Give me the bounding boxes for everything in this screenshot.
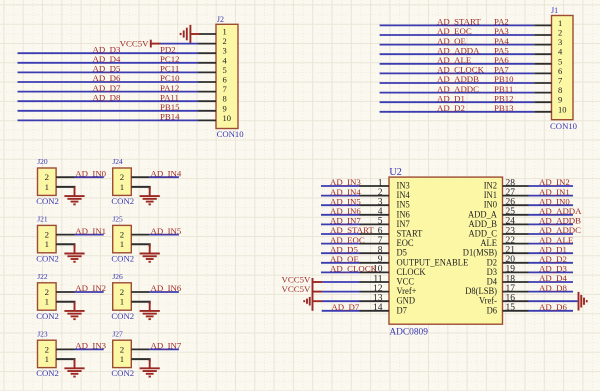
pin stub U2 pin 6 [360,233,390,235]
svg-text:AD_CLOCK: AD_CLOCK [437,65,485,75]
wire AD_EOC (J1 pin 2) [380,34,535,36]
svg-text:D7: D7 [397,306,408,316]
ground at J21 pin 1 [74,244,76,253]
pin stub J22 pin 2 [56,291,74,293]
svg-text:IN0: IN0 [484,201,498,211]
svg-text:D5: D5 [397,249,408,259]
pin stub J24 pin 2 [131,176,149,178]
svg-text:IN4: IN4 [397,191,411,201]
svg-text:PB14: PB14 [160,112,180,122]
pin stub U2 pin 8 [360,252,390,254]
wire PC11 (J2 pin 5) [18,71,199,73]
pin stub U2 pin 27 [503,195,529,197]
pin stub U2 pin 14 [360,310,390,312]
svg-text:1: 1 [120,354,124,364]
pin stub J26 pin 1 [131,302,149,304]
ground at U2 pin 16 [578,292,580,311]
wire AD_D4 (U2 pin 18) [529,281,574,283]
svg-text:J23: J23 [37,329,48,338]
pin stub U2 pin 1 [360,185,390,187]
wire AD_IN2 (U2 pin 28) [529,185,574,187]
pin stub U2 pin 26 [503,204,529,206]
svg-text:AD_D8: AD_D8 [539,283,567,293]
svg-text:J20: J20 [37,157,48,166]
ground at J27 pin 1 [149,359,151,368]
svg-text:10: 10 [223,113,232,123]
pin stub J1 pin 4 [534,53,551,55]
wire AD_D5 (U2 pin 8) [321,252,360,254]
pin stub U2 pin 10 [360,271,390,273]
svg-text:J21: J21 [37,215,48,224]
svg-text:D2: D2 [487,258,498,268]
wire AD_IN5 (J25 pin 2) [150,234,179,236]
svg-text:9: 9 [223,103,227,113]
wire AD_ALE (J1 pin 5) [380,63,535,65]
pin stub U2 pin 18 [503,281,529,283]
svg-text:AD_IN0: AD_IN0 [539,196,570,206]
pin stub J1 pin 1 [534,24,551,26]
wire AD_D8 (U2 pin 17) [529,291,574,293]
pin stub U2 pin 3 [360,204,390,206]
wire PD2 (J2 pin 3) [18,52,199,54]
svg-text:2: 2 [558,28,562,38]
svg-text:CON2: CON2 [36,196,59,206]
svg-text:1: 1 [223,27,227,37]
pin numbers J22 [45,287,49,307]
wire AD_ADDA (J1 pin 4) [380,53,535,55]
connector J20 body [38,168,57,195]
pin numbers J1 1-10 [558,18,567,114]
svg-text:D3: D3 [487,268,498,278]
svg-text:1: 1 [45,354,49,364]
svg-text:PB15: PB15 [160,102,180,112]
svg-text:CON2: CON2 [111,368,134,378]
pin stub J1 pin 7 [534,82,551,84]
pin stub U2 pin 13 [360,300,390,302]
svg-text:AD_ADDA: AD_ADDA [539,206,582,216]
svg-text:AD_D7: AD_D7 [93,83,121,93]
wire AD_IN2 (J22 pin 2) [75,291,104,293]
svg-text:AD_IN4: AD_IN4 [151,168,182,178]
pin stub U2 pin 23 [503,233,529,235]
U2 left pin names [397,182,469,317]
svg-text:J25: J25 [112,215,123,224]
svg-text:AD_IN6: AD_IN6 [330,206,361,216]
IC U2 ADC0809 body [389,177,503,324]
svg-text:AD_ADDC: AD_ADDC [539,225,581,235]
svg-text:VCC5V: VCC5V [282,274,311,284]
svg-text:CON2: CON2 [36,311,59,321]
svg-text:9: 9 [558,95,562,105]
svg-text:2: 2 [120,172,124,182]
wire AD_D2 (J1 pin 10) [380,111,535,113]
wire U2 pin 11 [322,281,360,283]
svg-text:AD_OE: AD_OE [330,254,359,264]
svg-text:7: 7 [223,84,227,94]
svg-text:8: 8 [558,85,562,95]
svg-text:1: 1 [120,297,124,307]
svg-text:AD_EOC: AD_EOC [330,235,365,245]
wire AD_ADDC (J1 pin 8) [380,92,535,94]
wire PB15 (J2 pin 9) [18,110,199,112]
svg-text:AD_D1: AD_D1 [539,244,567,254]
pin numbers J24 [120,172,124,192]
svg-text:Vref+: Vref+ [397,286,417,297]
svg-text:PA7: PA7 [494,65,509,75]
svg-text:3: 3 [558,37,562,47]
ground at J22 pin 1 [74,302,76,311]
svg-text:AD_ALE: AD_ALE [437,55,471,65]
svg-text:IN7: IN7 [397,220,411,230]
svg-text:AD_IN1: AD_IN1 [75,226,106,236]
svg-text:1: 1 [45,239,49,249]
wire AD_IN3 (J23 pin 2) [75,348,104,350]
wire AD_ADDB (J1 pin 7) [380,82,535,84]
svg-text:AD_IN3: AD_IN3 [330,177,361,187]
connector J21 body [38,225,57,252]
wire AD_ADDA (U2 pin 25) [529,214,574,216]
connector J23 body [38,340,57,367]
pin stub J21 pin 1 [56,244,74,246]
pin stub U2 pin 5 [360,223,390,225]
svg-text:1: 1 [558,18,562,28]
svg-text:D1(MSB): D1(MSB) [463,248,497,259]
svg-text:AD_IN2: AD_IN2 [75,283,106,293]
svg-text:PA4: PA4 [494,36,509,46]
wire AD_OE (J1 pin 3) [380,44,535,46]
wire PA12 (J2 pin 7) [18,91,199,93]
svg-text:2: 2 [120,230,124,240]
svg-text:CON2: CON2 [111,253,134,263]
wire VCC5V to J2 pin 2 [161,43,199,45]
svg-text:AD_START: AD_START [437,17,481,27]
wire AD_CLOCK (J1 pin 6) [380,72,535,74]
svg-text:PA2: PA2 [494,17,509,27]
pin stub J2 pin 9 [198,110,216,112]
svg-text:1: 1 [45,182,49,192]
svg-text:6: 6 [223,75,227,85]
svg-text:CON2: CON2 [36,253,59,263]
svg-text:IN5: IN5 [397,201,411,211]
wire AD_CLOCK (U2 pin 10) [321,271,360,273]
ground at J2 pin 1 [190,33,199,35]
svg-text:AD_IN7: AD_IN7 [330,216,361,226]
ground at J23 pin 1 [74,359,76,368]
svg-text:5: 5 [223,65,227,75]
svg-text:VCC5V: VCC5V [120,39,149,49]
svg-text:AD_IN6: AD_IN6 [151,283,182,293]
svg-text:PB10: PB10 [494,74,514,84]
svg-text:2: 2 [45,287,49,297]
pin stub J1 pin 2 [534,34,551,36]
svg-text:AD_D6: AD_D6 [539,302,567,312]
wire AD_IN0 (U2 pin 26) [529,204,574,206]
pin stub U2 pin 16 [503,300,529,302]
svg-text:AD_IN2: AD_IN2 [539,177,570,187]
wire AD_START (U2 pin 6) [321,233,360,235]
svg-text:U2: U2 [389,167,401,178]
pin stub J27 pin 2 [131,348,149,350]
pin stub U2 pin 7 [360,243,390,245]
svg-text:2: 2 [45,230,49,240]
ground at J24 pin 1 [149,187,151,196]
pin stub U2 pin 21 [503,252,529,254]
wire AD_START (J1 pin 1) [380,24,535,26]
pin stub J1 pin 9 [534,101,551,103]
connector J24 body [113,168,132,195]
svg-text:AD_IN5: AD_IN5 [330,196,361,206]
svg-text:PC12: PC12 [160,54,180,64]
pin stub J23 pin 1 [56,359,74,361]
svg-text:OUTPUT_ENABLE: OUTPUT_ENABLE [397,258,469,268]
pin stub U2 pin 15 [503,310,529,312]
svg-text:ADD_A: ADD_A [468,210,497,220]
pin stub J22 pin 1 [56,302,74,304]
svg-text:3: 3 [223,46,227,56]
pin numbers J2 1-10 [223,27,232,123]
svg-text:AD_D2: AD_D2 [539,254,567,264]
pin stub J1 pin 5 [534,63,551,65]
svg-text:CON2: CON2 [111,196,134,206]
wire AD_D1 (J1 pin 9) [380,101,535,103]
pin stub J1 pin 6 [534,72,551,74]
wire AD_IN1 (U2 pin 27) [529,195,574,197]
pin stub J25 pin 1 [131,244,149,246]
wire AD_IN3 (U2 pin 1) [321,185,360,187]
svg-text:2: 2 [120,287,124,297]
svg-text:1: 1 [45,297,49,307]
svg-text:2: 2 [45,344,49,354]
wire AD_OE (U2 pin 9) [321,262,360,264]
svg-text:D6: D6 [487,306,498,316]
wire AD_D1 (U2 pin 21) [529,252,574,254]
pin stub U2 pin 9 [360,262,390,264]
svg-text:CON10: CON10 [550,121,578,131]
svg-text:1: 1 [120,239,124,249]
svg-text:PA6: PA6 [494,55,509,65]
svg-text:AD_IN1: AD_IN1 [539,187,570,197]
pin stub U2 pin 25 [503,214,529,216]
svg-text:10: 10 [558,104,567,114]
connector J2 body [216,24,238,128]
pin stub J26 pin 2 [131,291,149,293]
svg-text:AD_IN5: AD_IN5 [151,226,182,236]
svg-text:AD_D6: AD_D6 [93,73,121,83]
pin stub J2 pin 1 [199,33,216,35]
pin stub J2 pin 6 [198,81,216,83]
pin stub J23 pin 2 [56,348,74,350]
svg-text:AD_IN0: AD_IN0 [75,168,106,178]
pin stub J2 pin 5 [198,71,216,73]
wire AD_D3 (U2 pin 19) [529,271,574,273]
wire AD_IN4 (U2 pin 2) [321,195,360,197]
svg-text:CON10: CON10 [217,129,245,139]
svg-text:J27: J27 [112,329,123,338]
connector J26 body [113,283,132,310]
ground at J20 pin 1 [74,187,76,196]
pin stub U2 pin 22 [503,243,529,245]
svg-text:AD_EOC: AD_EOC [437,26,472,36]
U2 left pin numbers 1-14 [373,178,383,313]
svg-text:PA5: PA5 [494,45,509,55]
svg-text:VCC: VCC [397,278,415,288]
wire AD_EOC (U2 pin 7) [321,243,360,245]
pin stub U2 pin 28 [503,185,529,187]
pin stub J20 pin 2 [56,176,74,178]
pin stub J2 pin 4 [198,62,216,64]
svg-text:AD_D8: AD_D8 [93,92,121,102]
pin stub J2 pin 2 [198,43,216,45]
pin numbers J21 [45,230,49,250]
pin numbers J20 [45,172,49,192]
svg-text:AD_CLOCK: AD_CLOCK [330,264,378,274]
svg-text:6: 6 [558,66,562,76]
pin stub U2 pin 17 [503,291,529,293]
svg-text:AD_D3: AD_D3 [93,44,121,54]
svg-text:ADD_C: ADD_C [469,230,498,240]
svg-text:AD_OE: AD_OE [437,36,466,46]
svg-text:ADD_B: ADD_B [469,220,498,230]
pin stub J24 pin 1 [131,187,149,189]
svg-text:VCC5V: VCC5V [282,284,311,294]
svg-text:J24: J24 [112,157,123,166]
svg-text:5: 5 [558,56,562,66]
wire AD_IN6 (J26 pin 2) [150,291,179,293]
wire PB14 (J2 pin 10) [18,119,199,121]
svg-text:AD_IN3: AD_IN3 [75,341,106,351]
wire PA11 (J2 pin 8) [18,100,199,102]
svg-text:J26: J26 [112,272,123,281]
pin stub U2 pin 19 [503,271,529,273]
svg-text:START: START [397,230,423,240]
pin stub J21 pin 2 [56,234,74,236]
svg-text:ALE: ALE [480,239,497,249]
pin stub J2 pin 3 [198,52,216,54]
connector J25 body [113,225,132,252]
wire AD_ADDC (U2 pin 23) [529,233,574,235]
svg-text:EOC: EOC [397,239,414,249]
pin stub J20 pin 1 [56,187,74,189]
pin stub U2 pin 20 [503,262,529,264]
svg-text:AD_D2: AD_D2 [437,103,465,113]
svg-text:8: 8 [223,94,227,104]
svg-text:AD_ADDB: AD_ADDB [539,216,581,226]
wire AD_IN7 (U2 pin 5) [321,223,360,225]
svg-text:CON2: CON2 [111,311,134,321]
wire AD_IN4 (J24 pin 2) [150,176,179,178]
pin stub J2 pin 10 [198,119,216,121]
pin stub U2 pin 2 [360,195,390,197]
wire PC12 (J2 pin 4) [18,62,199,64]
pin stub J25 pin 2 [131,234,149,236]
svg-text:J2: J2 [217,15,224,24]
svg-text:PC10: PC10 [160,73,180,83]
svg-text:AD_D5: AD_D5 [93,64,121,74]
svg-text:AD_START: AD_START [330,225,374,235]
svg-text:AD_ADDA: AD_ADDA [437,45,480,55]
wire AD_D7 (U2 pin 14) [322,310,360,312]
svg-text:AD_D4: AD_D4 [93,54,121,64]
pin stub U2 pin 24 [503,223,529,225]
power rail bar left of U2 [312,278,314,311]
connector J1 body [552,16,574,120]
pin stub J27 pin 1 [131,359,149,361]
wire AD_IN7 (J27 pin 2) [150,348,179,350]
svg-text:IN2: IN2 [484,182,498,192]
svg-text:PC11: PC11 [160,64,179,74]
svg-text:Vref-: Vref- [479,296,497,307]
svg-text:7: 7 [558,76,562,86]
svg-text:AD_D7: AD_D7 [331,302,359,312]
wire AD_ALE (U2 pin 22) [529,243,574,245]
svg-text:1: 1 [120,182,124,192]
svg-text:PD2: PD2 [160,44,176,54]
U2 right pin numbers 28-15 [506,178,516,313]
wire AD_IN0 (J20 pin 2) [75,176,104,178]
svg-text:PB12: PB12 [494,93,514,103]
svg-text:AD_D5: AD_D5 [330,244,358,254]
svg-text:GND: GND [397,297,416,307]
wire AD_ADDB (U2 pin 24) [529,223,574,225]
svg-text:AD_D3: AD_D3 [539,264,567,274]
svg-text:PA12: PA12 [160,83,179,93]
pin stub U2 pin 11 [360,281,390,283]
pin stub J1 pin 10 [534,111,551,113]
pin stub U2 pin 12 [360,291,390,293]
pin numbers J25 [120,230,124,250]
svg-text:AD_ADDC: AD_ADDC [437,84,479,94]
ground at J26 pin 1 [149,302,151,311]
pin stub J1 pin 8 [534,92,551,94]
pin stub U2 pin 4 [360,214,390,216]
svg-text:IN1: IN1 [484,191,498,201]
svg-text:2: 2 [120,344,124,354]
connector J22 body [38,283,57,310]
pin stub J2 pin 7 [198,91,216,93]
ground at J25 pin 1 [149,244,151,253]
wire U2 pin 12 [322,291,360,293]
svg-text:AD_ADDB: AD_ADDB [437,74,479,84]
svg-text:AD_IN7: AD_IN7 [151,341,182,351]
wire AD_IN5 (U2 pin 3) [321,204,360,206]
svg-text:CLOCK: CLOCK [397,268,426,278]
pin numbers J27 [120,344,124,364]
wire AD_IN6 (U2 pin 4) [321,214,360,216]
wire PC10 (J2 pin 6) [18,81,199,83]
pin stub J1 pin 3 [534,44,551,46]
svg-text:ADC0809: ADC0809 [389,328,428,338]
svg-text:J1: J1 [551,6,558,15]
svg-text:J22: J22 [37,272,48,281]
svg-text:PB11: PB11 [494,84,513,94]
svg-text:AD_ALE: AD_ALE [539,235,573,245]
pin stub J2 pin 8 [198,100,216,102]
ground at U2 pin 13 [309,297,311,306]
svg-text:2: 2 [45,172,49,182]
svg-text:D4: D4 [487,278,498,288]
svg-text:PA3: PA3 [494,26,509,36]
svg-text:CON2: CON2 [36,368,59,378]
svg-text:PA11: PA11 [160,92,179,102]
wire AD_IN1 (J21 pin 2) [75,234,104,236]
wire AD_D2 (U2 pin 20) [529,262,574,264]
wire U2 pin 16 to ground [529,300,578,302]
U2 right pin names [463,182,497,317]
svg-text:IN3: IN3 [397,182,411,192]
svg-text:IN6: IN6 [397,210,411,220]
svg-text:AD_D1: AD_D1 [437,93,465,103]
svg-text:AD_IN4: AD_IN4 [330,187,361,197]
